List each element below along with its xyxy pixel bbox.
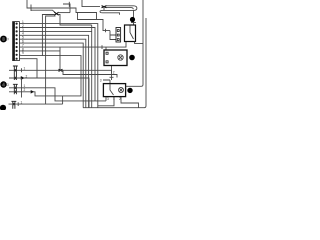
inline connector IC1 pins <box>14 69 16 71</box>
wire pin2 <box>20 28 95 101</box>
wire pin5 <box>20 39 86 108</box>
label circled number top-right <box>130 17 135 22</box>
wire top stub <box>63 4 70 13</box>
wire pin10 <box>20 59 37 78</box>
wire lower row B <box>63 70 117 77</box>
connector C1 pins <box>16 23 18 60</box>
inline connector IC2 pins <box>14 87 16 89</box>
tiny pin number labels <box>21 20 122 104</box>
switch inside U1 <box>130 26 134 40</box>
wire drop to X3 <box>59 47 61 70</box>
wire pin1 <box>20 24 98 108</box>
switch box U1 <box>125 25 136 42</box>
wire X1 lower-right branch <box>58 15 92 26</box>
label circled number bottom-right <box>127 88 132 93</box>
wire U1 bottom-right to right vertical <box>135 42 144 44</box>
inline connector IC2 bars <box>13 84 18 94</box>
wire pin6 <box>20 43 84 108</box>
connector C1 body <box>13 22 20 61</box>
wire riser x82 <box>82 0 100 7</box>
svg-text:1: 1 <box>24 66 26 70</box>
wire tick near relay drop <box>131 22 136 24</box>
switch lamp box B2 <box>103 84 125 97</box>
connector C1 left bar <box>13 22 15 61</box>
wire tick on top stub <box>68 2 70 7</box>
wire X2 drop <box>103 7 105 11</box>
inline connector IC1 bars <box>13 66 18 80</box>
wire second drop to relay feed <box>78 13 111 31</box>
svg-text:2: 2 <box>24 88 26 92</box>
wire box2 pin2 drop <box>98 97 114 106</box>
lamp symbol in L1 <box>118 55 123 60</box>
wire right vertical 2 <box>144 18 146 108</box>
wire inline-connector tick top-left <box>30 5 32 12</box>
arrow on IC2 row2 <box>31 90 34 94</box>
wire branch into lamp box top <box>105 47 107 50</box>
label circled number left <box>0 36 7 43</box>
wire lower row A <box>9 70 112 73</box>
wire IC1 row2 with arrow <box>9 78 89 108</box>
wire relay bracket <box>110 31 116 40</box>
tiny label square beside lower dot <box>7 84 9 86</box>
lamp box L1 <box>104 50 127 66</box>
inline connector IC3 pin <box>13 103 15 105</box>
wire tick before lamp box <box>101 45 103 49</box>
arrow on IC1 row2 <box>21 76 25 80</box>
switch inside B2 <box>110 84 114 95</box>
wire pin8 <box>20 50 60 52</box>
wire IC3 row <box>9 103 63 105</box>
wire X2 right lower <box>107 8 134 10</box>
tiny label square beside dot <box>7 38 9 40</box>
wire pin7 to lamp box <box>20 42 126 48</box>
inline connector IC3 bars <box>11 101 16 109</box>
wire vertical x91.7 <box>91 25 93 108</box>
wire upper branch into X1 <box>31 10 56 13</box>
svg-text:2: 2 <box>119 97 121 101</box>
svg-text:1: 1 <box>113 97 115 101</box>
node splice X1 <box>54 12 58 15</box>
wire right vertical 1 <box>126 0 143 86</box>
wire drop to relay box <box>133 10 135 24</box>
wire IC2 row2 <box>9 92 63 96</box>
tick on row A <box>21 68 23 72</box>
wire box2 pin3 drop <box>121 97 139 108</box>
wire bottom long B3 <box>83 107 145 109</box>
label circled number lower-left <box>0 81 6 87</box>
svg-text:3: 3 <box>107 97 109 101</box>
wire box2 top feed <box>103 80 110 84</box>
wire vertical crossing x21.5 <box>21 78 23 98</box>
wire X2 right serpentine loop <box>100 6 137 15</box>
lamp symbol in B2 <box>119 88 124 93</box>
svg-text:2: 2 <box>26 74 28 78</box>
wire X1 lower-left branch 2 <box>46 16 56 104</box>
pins in L1 <box>106 52 108 63</box>
wire X1 lower-left branch 1 <box>42 15 55 56</box>
tick on L1 bottom drop <box>110 76 114 78</box>
tick on relay feed <box>105 29 107 33</box>
label circled number mid-right <box>129 55 135 61</box>
wire IC3 tick <box>17 102 19 106</box>
svg-text:3: 3 <box>100 78 102 82</box>
wire pin3 <box>20 30 92 32</box>
label circled number bottom-left <box>0 105 6 111</box>
wire pin9 <box>20 55 81 104</box>
svg-text:1: 1 <box>21 100 23 104</box>
node splice X2 <box>102 6 107 8</box>
wire pin4 <box>20 35 89 107</box>
wire IC2 row1 <box>9 88 106 101</box>
svg-text:2: 2 <box>113 71 115 75</box>
node splice X3 <box>59 69 63 71</box>
wire top-left riser <box>27 0 97 20</box>
svg-text:9: 9 <box>22 51 24 55</box>
wire lamp box bottom drop <box>111 66 113 81</box>
wire X1 upper-right branch <box>58 12 70 14</box>
relay pin block <box>116 28 121 43</box>
wire box2 pin1 drop <box>105 97 107 101</box>
